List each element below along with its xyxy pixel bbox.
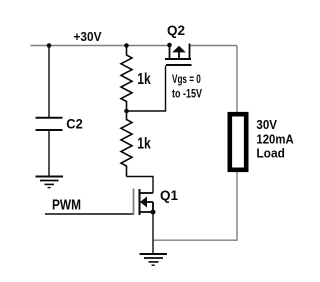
svg-text:+30V: +30V	[74, 29, 102, 44]
svg-text:Load: Load	[256, 146, 285, 161]
svg-text:1k: 1k	[137, 71, 151, 88]
svg-text:to -15V: to -15V	[172, 86, 202, 100]
svg-text:Vgs = 0: Vgs = 0	[172, 72, 201, 86]
svg-text:1k: 1k	[137, 136, 151, 153]
svg-text:C2: C2	[66, 116, 83, 132]
svg-text:Q2: Q2	[167, 22, 185, 38]
svg-text:PWM: PWM	[52, 197, 81, 214]
svg-text:30V: 30V	[256, 117, 277, 132]
svg-text:120mA: 120mA	[256, 131, 294, 146]
svg-text:Q1: Q1	[160, 187, 178, 203]
